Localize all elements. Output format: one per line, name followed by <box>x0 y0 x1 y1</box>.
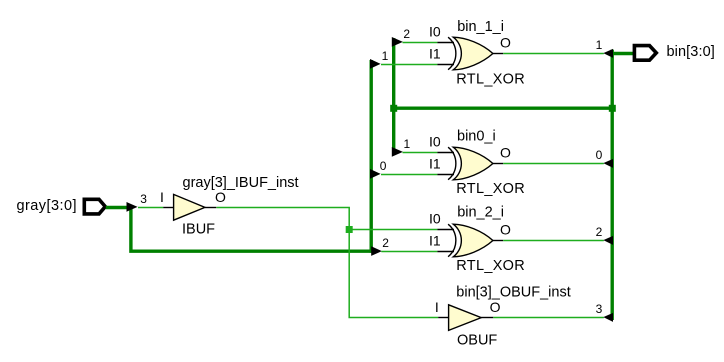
svg-text:RTL_XOR: RTL_XOR <box>456 72 525 88</box>
bus wire right vertical bin[3:0] <box>611 50 614 320</box>
wire gray[3]_IBUF net across and down <box>217 208 439 318</box>
bin0_i I1 pin stub <box>437 174 454 176</box>
tap arrow bin0_i I1 <box>370 169 381 179</box>
svg-text:O: O <box>490 299 501 315</box>
svg-text:gray[3:0]: gray[3:0] <box>17 198 77 214</box>
svg-text:3: 3 <box>140 192 147 206</box>
svg-text:I0: I0 <box>429 134 441 150</box>
svg-text:RTL_XOR: RTL_XOR <box>456 258 525 274</box>
svg-text:I0: I0 <box>429 211 441 227</box>
buffer OBUF <box>449 305 482 331</box>
buffer U IBUF <box>174 194 205 220</box>
wire to bin0_i I1 <box>381 174 437 176</box>
IBUF input pin stub <box>163 207 174 209</box>
svg-text:1: 1 <box>382 49 389 63</box>
bus wire feedback horizontal <box>394 106 613 109</box>
svg-text:1: 1 <box>596 38 603 52</box>
bin_1_i I1 pin stub <box>437 64 454 66</box>
wire gray[3] to IBUF I <box>138 207 163 209</box>
svg-text:OBUF: OBUF <box>457 333 497 349</box>
merge arrow bin[2] <box>603 236 613 245</box>
bus wire left riser <box>370 60 373 253</box>
tap arrow bin_2_i I1 <box>371 246 382 256</box>
svg-text:0: 0 <box>380 159 387 173</box>
bin_1_i I0 pin stub <box>437 42 454 44</box>
tap arrow bin_1_i I0 <box>392 37 403 47</box>
wire bin0_i O to bus <box>503 163 604 165</box>
tap arrow bin0_i I0 <box>392 147 403 157</box>
svg-text:O: O <box>500 35 511 51</box>
junction square gray[3]_IBUF net <box>346 226 353 233</box>
bin_2_i I1 pin stub <box>437 251 454 253</box>
bin0_i I0 pin stub <box>437 152 454 154</box>
svg-text:0: 0 <box>596 148 603 162</box>
svg-text:3: 3 <box>596 302 603 316</box>
merge arrow bin[0] <box>603 159 613 168</box>
svg-text:I: I <box>435 299 439 315</box>
xor gate bin_1_i <box>448 37 493 70</box>
svg-text:bin_1_i: bin_1_i <box>457 19 504 35</box>
wire branch to bin_2_i I0 <box>349 229 437 231</box>
merge arrow bin[3] <box>603 313 613 322</box>
bus wire stub to output port <box>611 52 635 55</box>
junction square left on feedback bus <box>390 105 397 112</box>
svg-text:I: I <box>160 189 164 205</box>
svg-text:bin_2_i: bin_2_i <box>457 205 504 221</box>
IBUF output pin stub <box>205 207 216 209</box>
svg-text:2: 2 <box>596 225 603 239</box>
svg-text:I1: I1 <box>429 233 441 249</box>
svg-text:bin0_i: bin0_i <box>457 129 496 145</box>
svg-text:I1: I1 <box>429 46 441 62</box>
wire bin_2_i O to bus <box>503 240 604 242</box>
bus wire right-mid riser <box>392 38 395 154</box>
tap arrow gray[3] <box>127 202 138 212</box>
bus wire gray[3:0] from port down and across bottom <box>106 208 373 252</box>
bin_2_i O pin stub <box>493 240 503 242</box>
svg-text:RTL_XOR: RTL_XOR <box>456 181 525 197</box>
svg-text:gray[3]_IBUF_inst: gray[3]_IBUF_inst <box>183 175 299 191</box>
svg-text:O: O <box>215 189 226 205</box>
wire OBUF O to bus <box>493 317 604 319</box>
svg-text:O: O <box>500 222 511 238</box>
svg-text:bin[3]_OBUF_inst: bin[3]_OBUF_inst <box>456 285 570 301</box>
junction square right on feedback bus <box>609 105 616 112</box>
xor gate bin0_i <box>448 147 493 180</box>
wire to bin_1_i I0 <box>403 42 438 44</box>
output port bin[3:0] <box>634 46 656 61</box>
OBUF output pin stub <box>481 317 493 319</box>
wire to bin_1_i I1 <box>381 64 437 66</box>
wire to bin0_i I0 <box>403 152 438 154</box>
merge arrow bin[1] <box>603 49 613 58</box>
OBUF input pin stub <box>438 317 449 319</box>
svg-text:1: 1 <box>404 137 411 151</box>
svg-text:O: O <box>500 145 511 161</box>
svg-text:2: 2 <box>403 27 410 41</box>
xor gate bin_2_i <box>448 224 493 257</box>
wire to bin_2_i I1 <box>381 251 437 253</box>
input port gray[3:0] <box>84 199 105 214</box>
bin0_i O pin stub <box>493 163 503 165</box>
bin_2_i I0 pin stub <box>437 229 454 231</box>
svg-text:2: 2 <box>382 236 389 250</box>
tap arrow bin_1_i I1 <box>370 59 381 69</box>
bin_1_i O pin stub <box>493 53 503 55</box>
svg-text:I1: I1 <box>429 156 441 172</box>
svg-text:bin[3:0]: bin[3:0] <box>667 44 715 60</box>
svg-text:IBUF: IBUF <box>182 221 215 237</box>
wire bin_1_i O to bus <box>503 53 604 55</box>
svg-text:I0: I0 <box>429 24 441 40</box>
